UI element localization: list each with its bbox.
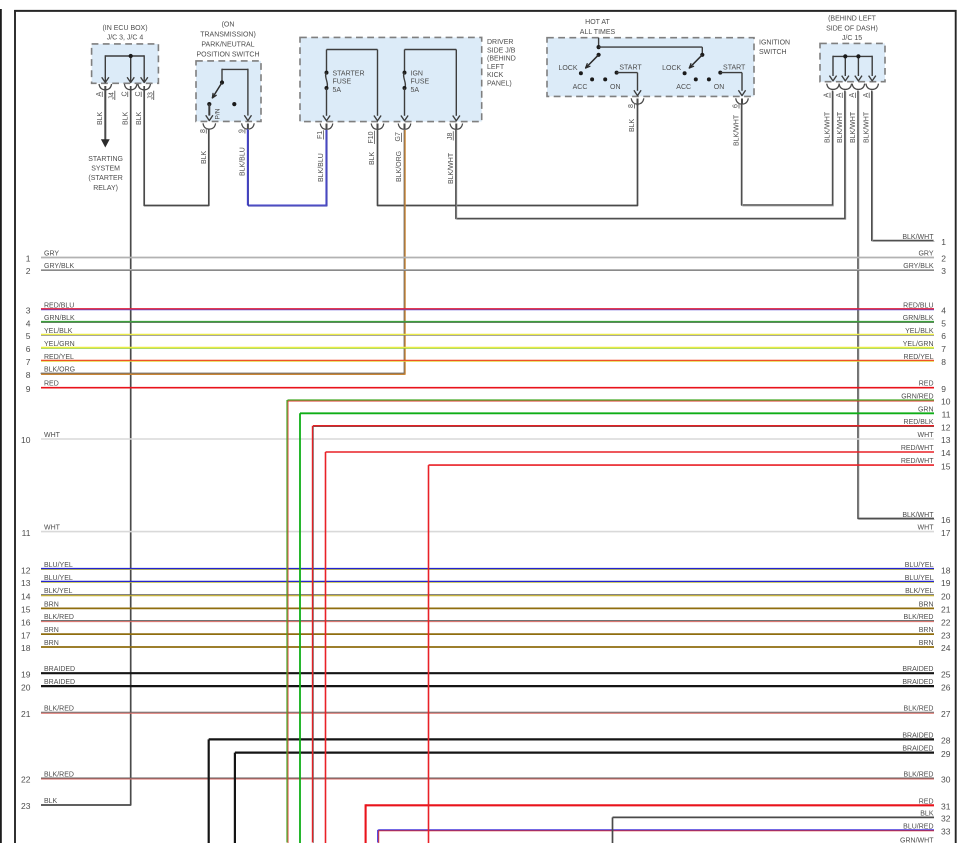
wire BLK row left 23	[21, 798, 58, 811]
svg-text:14: 14	[941, 448, 951, 458]
wire RED/BLU row left 3 / right 4	[26, 302, 947, 315]
wire BRAIDED row right 29	[235, 746, 951, 759]
svg-text:SWITCH: SWITCH	[759, 49, 787, 56]
svg-text:GRY: GRY	[44, 251, 59, 258]
wire BLK from J/C3 pin A to starting system	[97, 86, 110, 148]
svg-text:RED/BLU: RED/BLU	[903, 302, 933, 309]
svg-text:17: 17	[941, 528, 951, 538]
junction connector J/C 3, J/C 4 (in ECU box)	[92, 25, 159, 90]
svg-text:16: 16	[941, 515, 951, 525]
wire RED row left 9 / right 9	[26, 381, 947, 394]
svg-text:8: 8	[200, 129, 207, 133]
svg-text:BLK: BLK	[369, 151, 376, 165]
svg-text:J/C 15: J/C 15	[842, 35, 862, 42]
wire WHT row left 10 / right 13	[21, 432, 951, 445]
svg-text:LEFT: LEFT	[487, 64, 505, 71]
svg-text:(BEHIND LEFT: (BEHIND LEFT	[828, 16, 877, 23]
svg-text:7: 7	[26, 357, 31, 367]
svg-text:WHT: WHT	[918, 432, 935, 439]
pin F1 of J/B	[317, 130, 324, 139]
svg-text:IGN: IGN	[411, 70, 423, 77]
svg-text:8: 8	[941, 357, 946, 367]
svg-text:RED/YEL: RED/YEL	[904, 354, 934, 361]
wire label BLK/BLU below F1	[318, 124, 327, 183]
park/neutral position switch	[196, 21, 261, 129]
svg-text:YEL/GRN: YEL/GRN	[903, 341, 934, 348]
svg-text:12: 12	[21, 565, 31, 575]
svg-text:BLK: BLK	[122, 111, 129, 125]
svg-text:(STARTER: (STARTER	[88, 175, 122, 182]
svg-text:17: 17	[21, 630, 31, 640]
wire BLU/YEL row left 13 / right 19	[21, 575, 951, 588]
svg-text:RED: RED	[919, 381, 934, 388]
svg-text:9: 9	[941, 384, 946, 394]
svg-text:19: 19	[21, 669, 31, 679]
svg-text:13: 13	[941, 435, 951, 445]
wire BLK/YEL row left 14 / right 20	[21, 588, 951, 601]
svg-text:GRN/BLK: GRN/BLK	[903, 315, 934, 322]
svg-text:BRN: BRN	[44, 640, 59, 647]
svg-text:PANEL): PANEL)	[487, 81, 512, 88]
svg-text:26: 26	[941, 682, 951, 692]
svg-text:WHT: WHT	[44, 525, 61, 532]
pin G7 of J/B	[395, 132, 402, 142]
wire BLK/ORG from J/B pin G7 down to left row 8	[41, 124, 406, 375]
svg-text:4: 4	[26, 318, 31, 328]
svg-text:BLK: BLK	[920, 810, 934, 817]
wire BLK from J/C3 pin C down to left row 23	[41, 86, 131, 805]
wire BLK/RED row left 21 / right 27	[21, 706, 951, 719]
svg-text:5: 5	[941, 318, 946, 328]
wire BLK/WHT from J/B pin J8 to J/C 15 pin A2	[448, 91, 846, 220]
svg-text:SYSTEM: SYSTEM	[91, 166, 120, 173]
svg-text:PARK/NEUTRAL: PARK/NEUTRAL	[201, 41, 254, 48]
svg-text:FUSE: FUSE	[333, 79, 352, 86]
pin J8 of J/B	[447, 131, 454, 140]
svg-text:BLK/WHT: BLK/WHT	[902, 512, 934, 519]
wire RED/WHT vertical to right row 15	[428, 465, 430, 843]
svg-text:A: A	[96, 92, 103, 97]
svg-text:31: 31	[941, 802, 951, 812]
pin 6 of ignition switch	[733, 103, 740, 108]
pin 8 of ignition switch	[628, 103, 635, 108]
svg-text:BLK/WHT: BLK/WHT	[448, 152, 455, 184]
ignition switch left wafer (LOCK ACC ON START)	[558, 55, 643, 104]
svg-text:6: 6	[941, 331, 946, 341]
svg-text:5A: 5A	[333, 87, 342, 94]
svg-text:RED/YEL: RED/YEL	[44, 354, 74, 361]
wire GRY/BLK row left 2 / right 3	[26, 263, 947, 276]
svg-text:DRIVER: DRIVER	[487, 39, 513, 46]
svg-text:LOCK: LOCK	[662, 65, 681, 72]
wire RED/WHT row right 14	[326, 445, 951, 458]
wire BLK/WHT from ignition pin 6 to J/C 15 pin A1	[734, 91, 834, 207]
svg-text:BRN: BRN	[919, 601, 934, 608]
wire BLK/RED row left 22 / right 30	[21, 771, 951, 784]
svg-text:28: 28	[941, 736, 951, 746]
svg-text:10: 10	[941, 397, 951, 407]
wire BRN row left 18 / right 24	[21, 640, 951, 653]
wire GRN/RED row right 10	[288, 394, 951, 407]
wire BLK below ignition pin 8	[629, 99, 638, 133]
wire BLU/YEL row left 12 / right 18	[21, 562, 951, 575]
svg-text:19: 19	[941, 578, 951, 588]
svg-text:BLK/WHT: BLK/WHT	[825, 111, 832, 143]
svg-text:20: 20	[941, 591, 951, 601]
svg-text:BRAIDED: BRAIDED	[902, 666, 933, 673]
wire RED_T row right 31	[366, 798, 951, 811]
svg-text:SIDE OF DASH): SIDE OF DASH)	[826, 25, 878, 32]
svg-text:STARTING: STARTING	[88, 156, 123, 163]
svg-text:LOCK: LOCK	[558, 65, 577, 72]
svg-text:20: 20	[21, 682, 31, 692]
svg-text:21: 21	[941, 605, 951, 615]
wire RED/WHT vertical to right row 14	[325, 452, 327, 843]
pin 8 of park/neutral switch	[200, 128, 207, 133]
svg-text:25: 25	[941, 669, 951, 679]
svg-text:BRAIDED: BRAIDED	[902, 746, 933, 753]
wire YEL/GRN row left 6 / right 7	[26, 341, 947, 354]
svg-text:18: 18	[21, 643, 31, 653]
svg-text:BLK/ORG: BLK/ORG	[44, 367, 75, 374]
svg-text:18: 18	[941, 565, 951, 575]
fuse STARTER FUSE 5A	[320, 50, 384, 130]
svg-text:ON: ON	[610, 84, 621, 91]
wire GRN/BLK row left 4 / right 5	[26, 315, 947, 328]
pin 9 of park/neutral switch	[239, 128, 246, 133]
svg-text:ACC: ACC	[573, 84, 588, 91]
wire GRN/WHT row right 34	[378, 838, 951, 843]
wire RED vertical to right row 31	[365, 804, 367, 843]
fuse IGN FUSE 5A	[398, 50, 462, 130]
svg-text:11: 11	[22, 528, 31, 538]
svg-text:YEL/GRN: YEL/GRN	[44, 341, 75, 348]
svg-text:BLK: BLK	[201, 150, 208, 164]
svg-text:STARTER: STARTER	[333, 70, 365, 77]
svg-text:BRN: BRN	[44, 601, 59, 608]
svg-text:WHT: WHT	[44, 432, 61, 439]
svg-text:FUSE: FUSE	[411, 79, 430, 86]
svg-text:10: 10	[21, 435, 31, 445]
svg-text:GRY/BLK: GRY/BLK	[903, 263, 934, 270]
wire BRAIDED row right 28	[209, 732, 951, 745]
svg-text:12: 12	[941, 422, 951, 432]
wire RED/YEL row left 7 / right 8	[26, 354, 947, 367]
wire BRAIDED row left 20 / right 26	[21, 679, 951, 692]
svg-text:BRAIDED: BRAIDED	[44, 679, 75, 686]
svg-text:24: 24	[941, 643, 951, 653]
pin C of J/C 3	[121, 91, 128, 97]
svg-text:BLK/BLU: BLK/BLU	[318, 153, 325, 182]
wire GRN vertical to right row 11	[299, 413, 301, 843]
svg-text:BLK/WHT: BLK/WHT	[734, 114, 741, 146]
svg-text:1: 1	[941, 237, 946, 247]
svg-text:IGNITION: IGNITION	[759, 40, 790, 47]
label starting system (starter relay)	[88, 156, 123, 192]
wire BLK/BLU from PNP pin 9 to driver side J/B pin F1	[239, 124, 327, 207]
wire BRAIDED row left 19 / right 25	[21, 666, 951, 679]
svg-text:BLK/RED: BLK/RED	[44, 706, 74, 713]
svg-text:BLK/ORG: BLK/ORG	[396, 151, 403, 182]
svg-text:BRN: BRN	[919, 627, 934, 634]
svg-text:HOT AT: HOT AT	[585, 19, 610, 26]
wire BLK/WHT from J/C 15 pin A3 down to right row 16	[858, 91, 935, 520]
svg-text:RED/WHT: RED/WHT	[901, 445, 934, 452]
svg-text:5A: 5A	[411, 87, 420, 94]
svg-text:27: 27	[941, 709, 951, 719]
svg-text:START: START	[723, 65, 746, 72]
svg-text:BLK/RED: BLK/RED	[904, 614, 934, 621]
ignition switch right wafer (LOCK ACC ON START)	[662, 55, 748, 104]
svg-text:RED: RED	[919, 798, 934, 805]
svg-text:23: 23	[21, 801, 31, 811]
svg-text:2: 2	[26, 266, 31, 276]
svg-text:BLU/YEL: BLU/YEL	[905, 562, 934, 569]
pin A1 of J/C 15	[824, 93, 831, 99]
wire GRY row left 1 / right 2	[26, 251, 947, 264]
svg-text:GRN/RED: GRN/RED	[901, 394, 933, 401]
wire GRN row right 11	[300, 406, 951, 419]
svg-text:BLK/YEL: BLK/YEL	[44, 588, 73, 595]
svg-text:3: 3	[26, 306, 31, 316]
wire label BLK/WHT below J/C 15 pin A3	[850, 111, 857, 143]
svg-text:4: 4	[941, 306, 946, 316]
wire BLU/RED vertical to right row 33	[378, 830, 379, 843]
svg-text:2: 2	[941, 254, 946, 264]
wire BLK/RED row left 16 / right 22	[21, 614, 951, 627]
svg-text:1: 1	[26, 254, 31, 264]
svg-text:16: 16	[21, 617, 31, 627]
svg-text:GRY/BLK: GRY/BLK	[44, 263, 75, 270]
svg-text:8: 8	[26, 370, 31, 380]
svg-text:22: 22	[941, 617, 951, 627]
svg-text:START: START	[619, 65, 642, 72]
svg-text:GRN/BLK: GRN/BLK	[44, 315, 75, 322]
wire YEL/BLK row left 5 / right 6	[26, 328, 947, 341]
svg-text:GRY: GRY	[918, 251, 933, 258]
wire BLU/RED row right 33	[378, 823, 951, 836]
wire RED/WHT row right 15	[429, 458, 951, 471]
svg-text:22: 22	[21, 775, 31, 785]
svg-text:(BEHIND: (BEHIND	[487, 56, 516, 63]
wire WHT row left 11 / right 17	[22, 525, 951, 538]
svg-text:BLK/WHT: BLK/WHT	[850, 111, 857, 143]
wire BLK/WHT from J/C 15 pin A4 to right row 1	[872, 91, 947, 248]
svg-text:ON: ON	[714, 84, 725, 91]
svg-text:RED/BLU: RED/BLU	[44, 302, 74, 309]
svg-text:YEL/BLK: YEL/BLK	[905, 328, 934, 335]
svg-text:BLK/WHT: BLK/WHT	[864, 111, 871, 143]
svg-text:21: 21	[21, 709, 31, 719]
svg-text:BRN: BRN	[919, 640, 934, 647]
wire BLK/ORG row left 8	[26, 367, 405, 380]
svg-text:GRN: GRN	[918, 406, 934, 413]
svg-text:BLK: BLK	[97, 111, 104, 125]
svg-text:ALL TIMES: ALL TIMES	[580, 29, 616, 36]
driver side junction block J/B	[300, 37, 516, 121]
svg-text:BLK/WHT: BLK/WHT	[902, 234, 934, 241]
pin C of J/C 4	[135, 91, 155, 100]
svg-text:14: 14	[21, 591, 31, 601]
svg-text:7: 7	[941, 344, 946, 354]
wire label BLK/WHT below J/C 15 pin A2	[837, 111, 844, 143]
wire GRN/RED vertical to right row 10	[287, 400, 288, 843]
svg-text:32: 32	[941, 814, 951, 824]
svg-text:RED: RED	[44, 381, 59, 388]
label HOT AT ALL TIMES	[580, 19, 616, 36]
svg-text:BLK: BLK	[44, 798, 58, 805]
wire BLK row right 32	[613, 810, 951, 823]
svg-text:KICK: KICK	[487, 72, 504, 79]
wire BRAIDED vertical to right row 28	[208, 739, 210, 843]
svg-text:YEL/BLK: YEL/BLK	[44, 328, 73, 335]
wire RED/BLK vertical to right row 12	[313, 426, 314, 843]
svg-text:11: 11	[942, 410, 951, 420]
svg-text:BLK: BLK	[136, 111, 143, 125]
svg-text:TRANSMISSION): TRANSMISSION)	[200, 31, 256, 38]
wire BRN row left 15 / right 21	[21, 601, 951, 614]
svg-text:BRN: BRN	[44, 627, 59, 634]
pin A of J/C 3	[96, 91, 116, 100]
pin A3 of J/C 15	[849, 93, 856, 99]
svg-text:SIDE J/B: SIDE J/B	[487, 47, 516, 54]
ignition switch	[547, 38, 790, 97]
wire BLK below PNP pin 8	[201, 150, 208, 164]
svg-text:9: 9	[26, 384, 31, 394]
svg-text:BLU/YEL: BLU/YEL	[905, 575, 934, 582]
svg-text:BLK/WHT: BLK/WHT	[837, 111, 844, 143]
wire BLK vertical to right row 32	[612, 817, 614, 843]
svg-text:13: 13	[21, 578, 31, 588]
svg-text:3: 3	[941, 266, 946, 276]
wire BRN row left 17 / right 23	[21, 627, 951, 640]
svg-text:5: 5	[26, 331, 31, 341]
junction connector J/C 15 (behind left side of dash)	[820, 16, 885, 90]
svg-text:BLK/RED: BLK/RED	[904, 771, 934, 778]
svg-text:29: 29	[941, 749, 951, 759]
svg-text:15: 15	[941, 461, 951, 471]
pin F10 of J/B	[368, 131, 375, 144]
wire label BLK/WHT below J/C 15 pin A1	[825, 111, 832, 143]
svg-text:ACC: ACC	[676, 84, 691, 91]
svg-text:BLK/YEL: BLK/YEL	[905, 588, 934, 595]
svg-text:(ON: (ON	[222, 21, 235, 28]
pin A4 of J/C 15	[863, 93, 870, 99]
svg-text:RED/WHT: RED/WHT	[901, 458, 934, 465]
svg-text:GRN/WHT: GRN/WHT	[900, 838, 934, 843]
wire RED/BLK row right 12	[313, 419, 951, 432]
svg-text:J/C 3, J/C 4: J/C 3, J/C 4	[107, 34, 144, 41]
svg-text:(IN ECU BOX): (IN ECU BOX)	[102, 25, 147, 32]
wire label BLK/WHT below J/C 15 pin A4	[864, 111, 871, 143]
wire BLK from J/C4 pin C to park/neutral position switch pin 8	[136, 86, 209, 206]
svg-text:BLK/BLU: BLK/BLU	[239, 147, 246, 176]
svg-text:BLK/RED: BLK/RED	[904, 706, 934, 713]
svg-text:BLU/YEL: BLU/YEL	[44, 562, 73, 569]
svg-text:BLK/RED: BLK/RED	[44, 771, 74, 778]
svg-text:23: 23	[941, 630, 951, 640]
svg-text:33: 33	[941, 827, 951, 837]
svg-text:BRAIDED: BRAIDED	[902, 732, 933, 739]
pin A2 of J/C 15	[836, 93, 843, 99]
wire BLK from J/B pin F10 to ignition switch pin 8	[369, 106, 638, 206]
svg-text:BLK/RED: BLK/RED	[44, 614, 74, 621]
svg-text:BLK: BLK	[629, 118, 636, 132]
svg-text:15: 15	[21, 605, 31, 615]
svg-text:30: 30	[941, 775, 951, 785]
wire BRAIDED vertical to right row 29	[234, 753, 236, 843]
svg-text:BLU/YEL: BLU/YEL	[44, 575, 73, 582]
svg-text:BRAIDED: BRAIDED	[902, 679, 933, 686]
svg-text:POSITION SWITCH: POSITION SWITCH	[197, 51, 260, 58]
svg-text:BRAIDED: BRAIDED	[44, 666, 75, 673]
svg-text:6: 6	[26, 344, 31, 354]
svg-text:P/N: P/N	[215, 108, 222, 119]
svg-text:WHT: WHT	[918, 525, 935, 532]
svg-text:RELAY): RELAY)	[93, 185, 118, 192]
wire BLK/WHT row right 16	[858, 512, 950, 525]
svg-text:BLU/RED: BLU/RED	[903, 823, 933, 830]
svg-text:RED/BLK: RED/BLK	[904, 419, 934, 426]
